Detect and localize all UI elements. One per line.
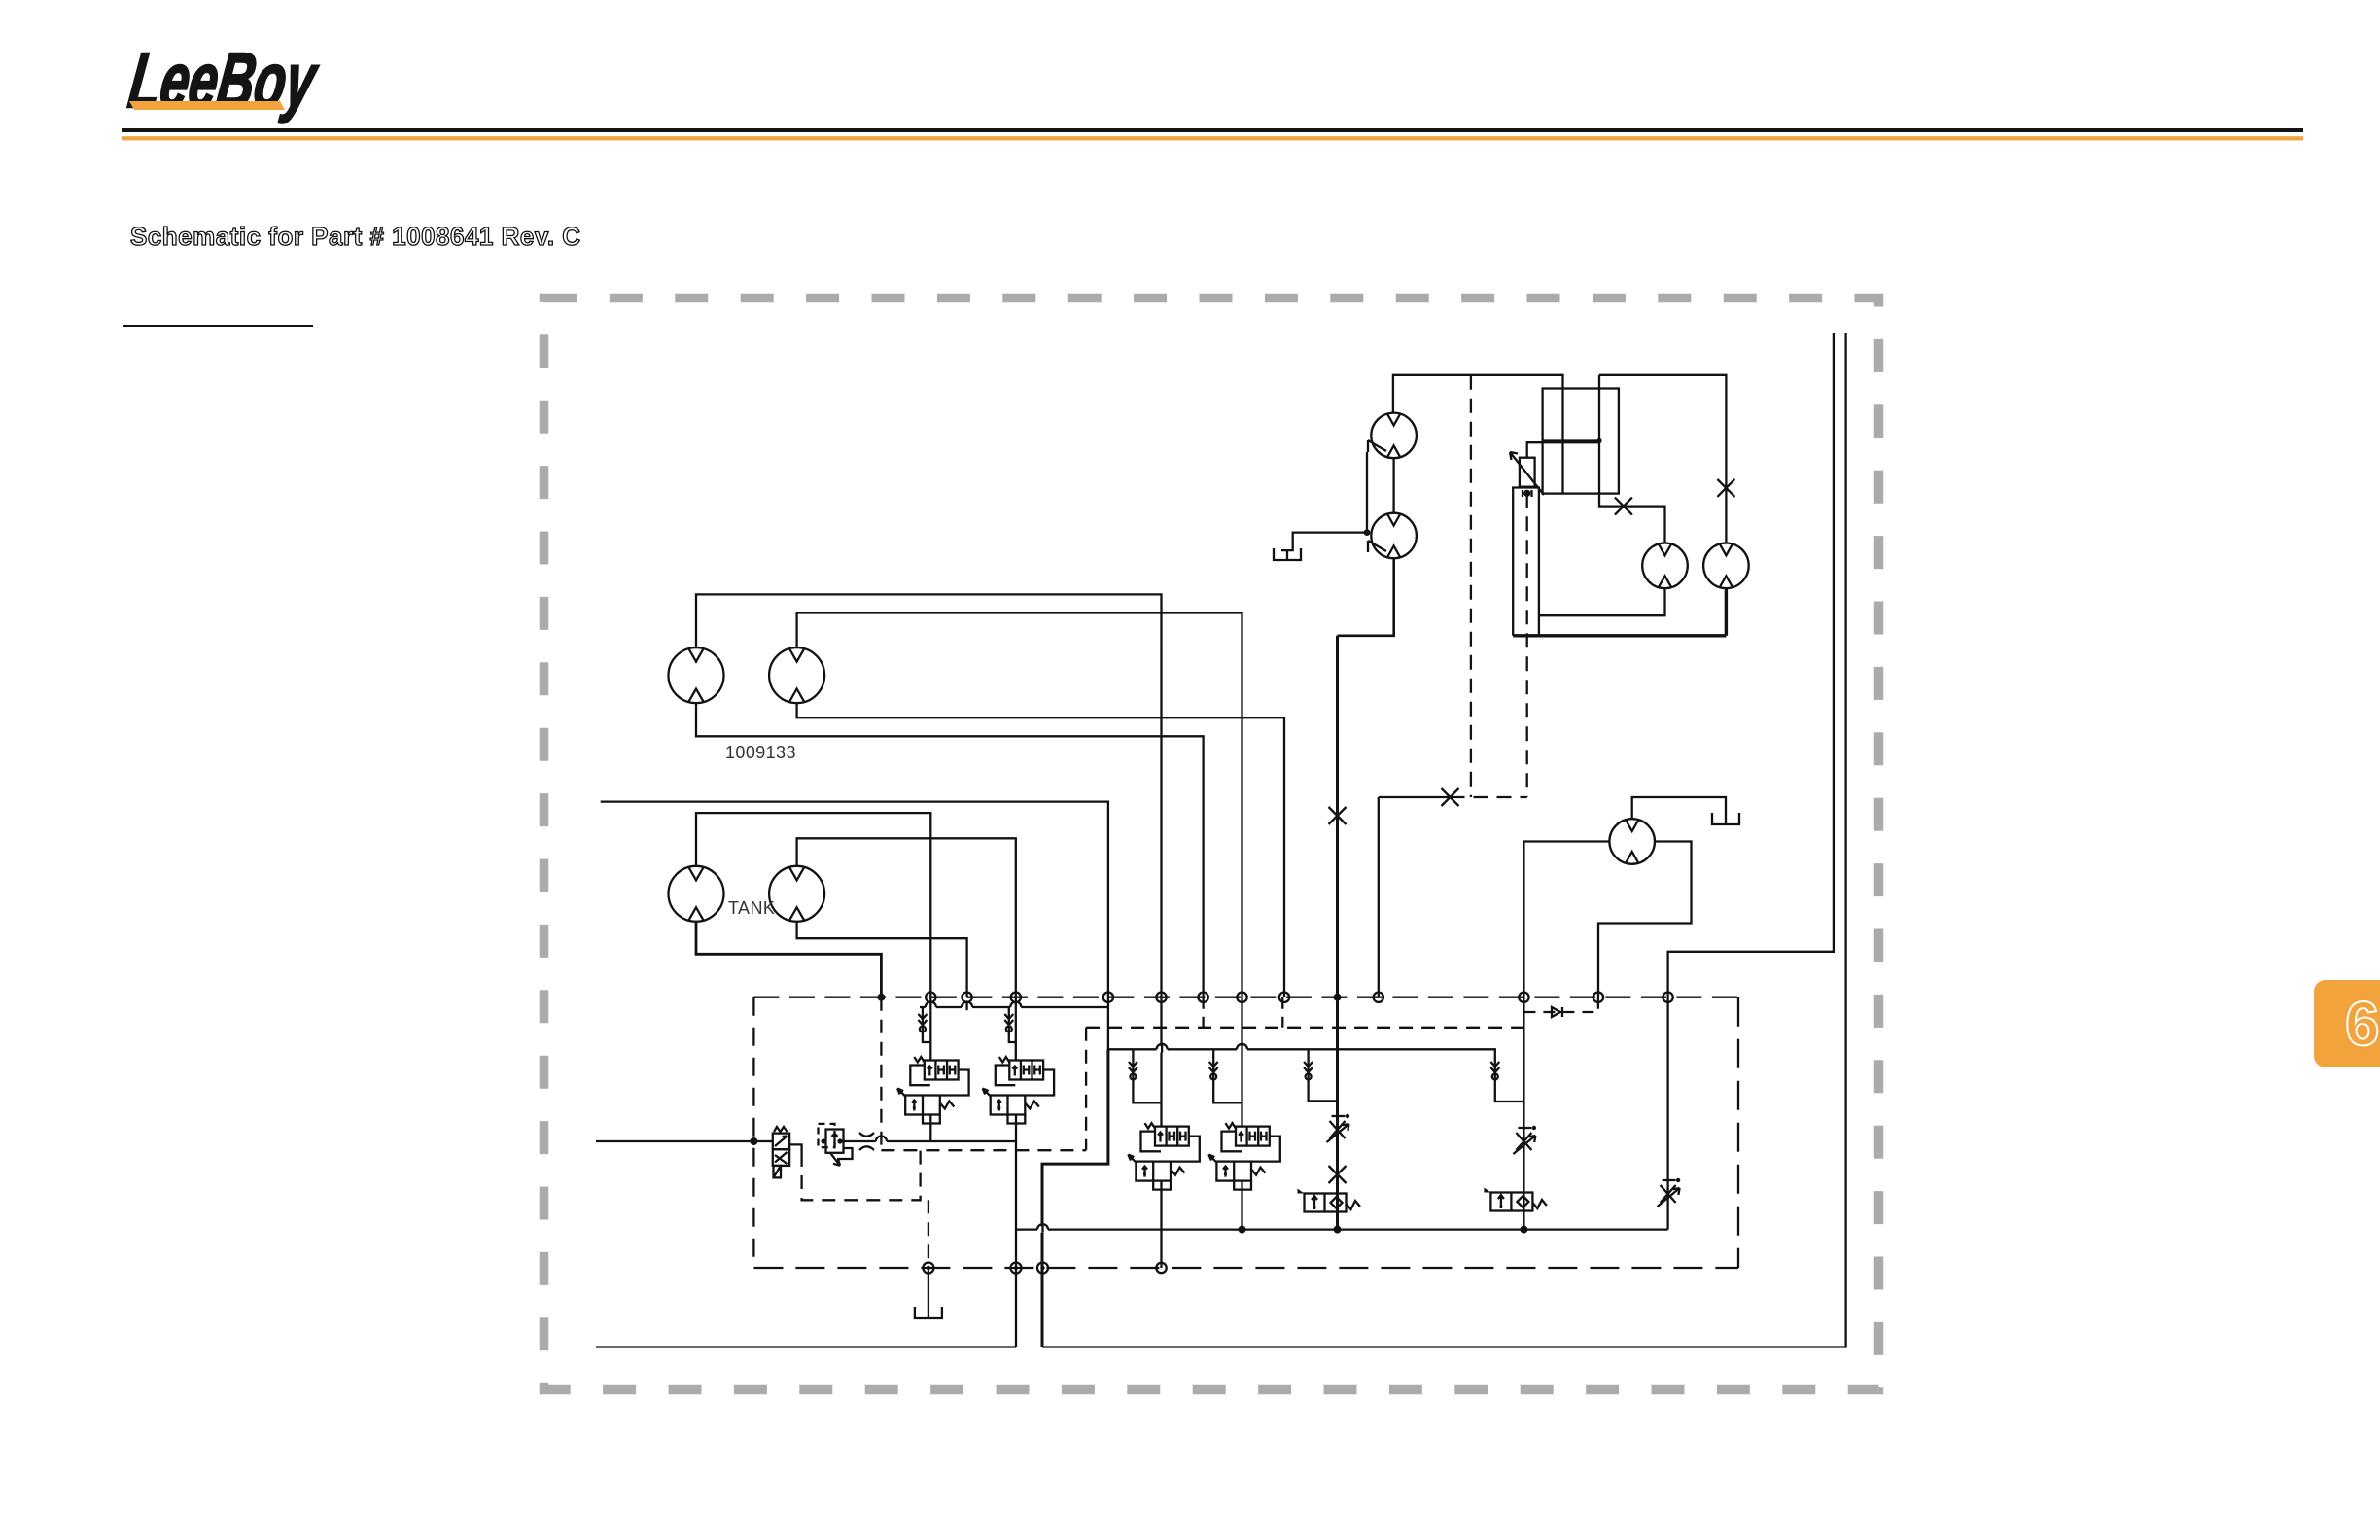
node bus J8 bbox=[1237, 992, 1246, 1001]
pilot dashed stub S2 bbox=[1281, 997, 1283, 1028]
column VA3 feed bbox=[1160, 997, 1162, 1127]
disconnect X1 on center column bbox=[1329, 807, 1347, 824]
small rule under title bbox=[122, 325, 313, 327]
pilot dashed group2 top bbox=[1086, 1027, 1523, 1029]
flow control FC3 bbox=[1658, 1178, 1681, 1207]
node bus J14 bbox=[1662, 992, 1672, 1001]
motor M2 bbox=[769, 647, 824, 703]
svg-text:TANK: TANK bbox=[728, 898, 775, 918]
left control valve L1 bbox=[773, 1127, 789, 1177]
disconnect X4 bbox=[1442, 788, 1459, 806]
header orange rule bbox=[122, 136, 2303, 140]
node bus J9 bbox=[1279, 992, 1289, 1001]
node bus J2 bbox=[926, 992, 935, 1001]
wire M2 top to valve bus bbox=[797, 613, 1242, 997]
relief branch RB3 bbox=[1309, 1049, 1338, 1101]
disconnect X5 bbox=[1329, 1166, 1347, 1183]
pilot dashed group2 left bbox=[1085, 1028, 1087, 1150]
wire M5 top to tank bbox=[1632, 797, 1726, 819]
node boundary J17 bbox=[1037, 1263, 1048, 1274]
wire bottom return left bbox=[596, 1346, 1016, 1347]
solenoid valve SV2 bbox=[1484, 1188, 1547, 1211]
wire hop H5 bbox=[1237, 1044, 1247, 1053]
manifold boundary left bbox=[752, 997, 754, 1268]
center pressure column bbox=[1336, 636, 1339, 1230]
LeeBoy logo text bbox=[123, 37, 323, 124]
node boundary J15 bbox=[923, 1263, 933, 1274]
column VA3 lower bbox=[1160, 1180, 1162, 1268]
wire M4 bottom to valve bus bbox=[797, 922, 967, 997]
relief valve RV1 bbox=[1520, 458, 1535, 487]
main reduced pressure line bbox=[844, 1140, 1016, 1142]
node left feed junction bbox=[750, 1137, 757, 1145]
valve assembly VA4 bbox=[1208, 1123, 1279, 1190]
node bus J12 bbox=[1519, 992, 1528, 1001]
shuttle dashed stub bbox=[1597, 997, 1599, 1012]
pump P1 top right bbox=[1371, 413, 1417, 459]
solenoid valve SV1 bbox=[1298, 1189, 1361, 1212]
shuttle check valve bbox=[1552, 1007, 1562, 1017]
node bus J5 bbox=[1103, 992, 1113, 1001]
wire M5 right return bbox=[1598, 842, 1692, 997]
pump P3 bbox=[1642, 543, 1688, 589]
relief branch RB6 bbox=[1213, 1049, 1242, 1102]
pump P2 bbox=[1371, 513, 1417, 559]
node bus J1 bbox=[877, 994, 885, 1001]
chapter tab 6 bbox=[2314, 980, 2380, 1067]
flow control FC2 bbox=[1513, 1126, 1536, 1154]
wire to tank T3 bbox=[927, 1268, 929, 1309]
node collector J21 bbox=[1520, 1226, 1527, 1234]
heat exchanger divider bbox=[1543, 439, 1599, 441]
wire M1 bottom to valve bus bbox=[696, 703, 1204, 997]
node collector J19 bbox=[1239, 1226, 1246, 1234]
wire hop H6 bbox=[876, 1137, 887, 1145]
wire M1 top to valve bus bbox=[696, 594, 1162, 997]
pilot dashed sub-box bbox=[802, 1150, 921, 1200]
disconnect X2 bbox=[1615, 498, 1632, 515]
wire hop H1 bbox=[926, 1002, 936, 1011]
svg-text:LeeBoy: LeeBoy bbox=[123, 37, 323, 124]
valve assembly VA2 bbox=[983, 1057, 1054, 1124]
pump P4 bbox=[1703, 543, 1749, 589]
orifice O1 bbox=[859, 1133, 874, 1150]
svg-text:1009133: 1009133 bbox=[725, 743, 796, 762]
node bus J4 bbox=[1011, 992, 1021, 1001]
pressure reducing valve R1 bbox=[819, 1124, 853, 1166]
logo orange underline slab bbox=[129, 101, 285, 110]
wire P1 top bbox=[1393, 375, 1563, 494]
node pump lever junction bbox=[1364, 529, 1371, 536]
wire test port riser bbox=[1378, 797, 1380, 997]
header black rule bbox=[122, 128, 2303, 132]
wire top link to pump P4 bbox=[1599, 375, 1726, 543]
wire M3 bottom to valve bus bbox=[696, 922, 881, 997]
wire top link to heat exchanger bbox=[1599, 375, 1665, 543]
node collector J20 bbox=[1334, 1226, 1342, 1234]
svg-text:6: 6 bbox=[2345, 989, 2380, 1059]
wire L1 out bbox=[789, 1144, 802, 1153]
pilot dashed line DV1 bbox=[1470, 375, 1472, 797]
node boundary J18 bbox=[1156, 1263, 1166, 1273]
internal feed line group1 bbox=[920, 1006, 1108, 1008]
pilot drain dashed from RV1 bbox=[1526, 493, 1528, 797]
node bus J13 bbox=[1593, 992, 1603, 1001]
motor M1 (aux pump top left) bbox=[669, 647, 724, 703]
wire P4 bottom thick bbox=[1513, 588, 1726, 636]
wire hop H3 bbox=[1010, 1002, 1021, 1011]
wire test port bbox=[1379, 796, 1451, 798]
heat exchanger block bbox=[1543, 389, 1619, 494]
wire right riser pair bbox=[1668, 333, 1834, 1230]
wire hop H4 bbox=[1157, 1044, 1168, 1053]
wire P3 bottom bbox=[1539, 588, 1665, 615]
relief branch RB5 bbox=[1133, 1049, 1161, 1102]
wire long feed lower left bbox=[596, 1140, 773, 1142]
node RV1 drain bbox=[1523, 490, 1530, 497]
tank T1 bbox=[1274, 548, 1301, 560]
drain wire P2 to tank bbox=[1281, 533, 1367, 551]
feed jog to bottom return bbox=[1042, 1049, 1108, 1347]
flow control FC1 on center column bbox=[1327, 1114, 1350, 1142]
motor M3 (tank pair) bbox=[669, 866, 724, 922]
node boundary J16 bbox=[1011, 1263, 1022, 1274]
column VA1 upper bbox=[929, 997, 931, 1061]
motor M4 bbox=[769, 866, 824, 922]
valve assembly VA3 bbox=[1128, 1123, 1199, 1190]
drain dashed to tank bbox=[927, 1200, 929, 1268]
wire RV1 to heat exchanger bbox=[1527, 442, 1599, 458]
node bus J10 bbox=[1334, 994, 1342, 1001]
wire hop H7 bbox=[1037, 1224, 1048, 1233]
column VA2 full bbox=[1015, 997, 1017, 1347]
relief branch RB1 bbox=[923, 1007, 930, 1042]
node bus J11 bbox=[1374, 992, 1383, 1001]
column VA4 lower bbox=[1241, 1180, 1242, 1229]
pilot dashed stub S1 bbox=[1202, 997, 1204, 1028]
manifold boundary bottom bbox=[753, 1267, 1738, 1269]
relief branch RB2 bbox=[1009, 1007, 1016, 1042]
node bus J6 bbox=[1156, 992, 1166, 1001]
accumulator narrow shell bbox=[1513, 488, 1539, 636]
wire hop H2 bbox=[962, 1002, 972, 1011]
bottom collector bus bbox=[1016, 1228, 1668, 1230]
shuttle dashed line bbox=[1523, 1011, 1598, 1013]
svg-text:Schematic for Part # 1008641 R: Schematic for Part # 1008641 Rev. C bbox=[130, 222, 581, 251]
pilot dashed horizontal bbox=[1451, 796, 1527, 798]
manifold boundary top (dash-dot bus) bbox=[753, 997, 1738, 998]
tank T3 bbox=[915, 1307, 942, 1318]
group2 pressure line bbox=[1108, 997, 1524, 1102]
disconnect X3 bbox=[1717, 479, 1734, 497]
lever P1 bbox=[1368, 440, 1386, 452]
tank T2 bbox=[1712, 813, 1739, 824]
node bus J3 bbox=[962, 992, 971, 1001]
border frame bbox=[544, 298, 1879, 1390]
relief RB4 on step bbox=[1490, 1062, 1499, 1080]
node bus J7 bbox=[1198, 992, 1207, 1001]
wire M3 top to valve bus bbox=[696, 813, 930, 997]
motor M5 (mid right) bbox=[1609, 819, 1655, 864]
valve assembly VA1 bbox=[897, 1057, 968, 1124]
column VA1 lower tick bbox=[929, 1114, 931, 1141]
pilot link P1-P2 bbox=[1366, 452, 1368, 533]
wire long feed upper left bbox=[601, 802, 1108, 997]
manifold boundary right bbox=[1737, 997, 1739, 1268]
wire M4 top to valve bus bbox=[797, 838, 1016, 997]
wire M5 left to valve column bbox=[1523, 842, 1609, 1230]
wire M2 bottom to valve bus bbox=[797, 703, 1284, 997]
pilot dashed group1 bottom bbox=[881, 1149, 1086, 1151]
wire bottom return right bbox=[1043, 333, 1846, 1347]
column VA4 feed bbox=[1241, 997, 1242, 1127]
wire P1-P2 link bbox=[1392, 458, 1394, 513]
wire P2 bottom to center column bbox=[1338, 558, 1394, 636]
pilot dashed group1 left bbox=[880, 997, 882, 1151]
lever P2 bbox=[1368, 541, 1386, 552]
